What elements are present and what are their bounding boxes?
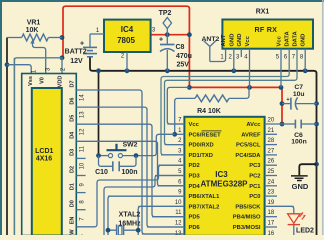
- svg-text:AVcc: AVcc: [246, 122, 261, 128]
- node C7 gnd: [314, 101, 319, 106]
- wire LCD EN to IC3 PD2: [76, 165, 184, 227]
- wire IC4 pin2: [121, 52, 127, 71]
- test point TP2: [159, 10, 172, 35]
- node GND branch: [314, 162, 319, 167]
- wire SW2 gnd side: [99, 155, 109, 157]
- node VR1 right on red: [60, 35, 65, 40]
- wire LCD stub 8: [76, 192, 85, 194]
- svg-text:PC1: PC1: [249, 184, 261, 190]
- wire IC3 pin 7 stub: [167, 123, 184, 125]
- op-amp IC4 7805 box: [104, 20, 151, 52]
- svg-text:LCD1: LCD1: [35, 148, 53, 155]
- node AVcc/C6 junction: [280, 122, 285, 127]
- wire to GND symbol: [299, 164, 316, 175]
- svg-text:GND: GND: [237, 34, 243, 47]
- svg-text:ANT: ANT: [221, 34, 227, 46]
- svg-text:17: 17: [268, 221, 275, 227]
- svg-text:PD6: PD6: [189, 225, 201, 231]
- svg-text:26: 26: [268, 159, 275, 165]
- wire RF pin4 Vcc: [249, 49, 251, 88]
- svg-text:C10: C10: [95, 169, 108, 176]
- svg-text:PD1/TXD: PD1/TXD: [189, 153, 213, 159]
- label LCD pin 10 D3: [69, 149, 85, 170]
- svg-text:24: 24: [268, 179, 275, 185]
- svg-text:PC4/SDA: PC4/SDA: [235, 153, 261, 159]
- label RF RX pin 2 GND: [229, 34, 236, 61]
- op-amp RX1 RF RX box: [222, 9, 313, 49]
- svg-text:PD3: PD3: [189, 174, 201, 180]
- label LCD pin 7 D0: [69, 200, 85, 221]
- label IC3 pin 19 PB5/SCK: [235, 200, 274, 211]
- capacitor C6 100n: [282, 120, 317, 146]
- wire IC3 pin10 to crystal: [138, 206, 184, 230]
- node SW2/C10 junction: [134, 153, 139, 158]
- label LCD pin 13 D6: [69, 98, 85, 119]
- capacitor C8 470u 25V: [159, 35, 192, 71]
- svg-text:PD2: PD2: [189, 163, 200, 169]
- node crystal left: [106, 228, 111, 233]
- svg-text:PC6/RESET: PC6/RESET: [189, 132, 222, 138]
- wire IC3 pin 17 stub: [265, 226, 277, 228]
- svg-text:23: 23: [268, 190, 275, 196]
- label IC3 pin 16 PB2/SS: [268, 231, 275, 237]
- svg-text:TP2: TP2: [159, 10, 172, 17]
- label RF RX pin 1 ANT: [220, 34, 227, 60]
- wire IC3 pin 24 stub: [265, 185, 277, 187]
- svg-text:GND: GND: [301, 34, 307, 47]
- diode LED2: [288, 213, 314, 236]
- node C8 gnd: [165, 68, 170, 73]
- node LCD VDD on red: [60, 55, 65, 60]
- svg-text:Vss: Vss: [28, 76, 34, 86]
- label IC3 pin 17 PB3/MOSI: [233, 221, 275, 232]
- svg-text:25: 25: [268, 169, 275, 175]
- svg-text:14: 14: [79, 94, 85, 101]
- svg-text:GND: GND: [229, 34, 235, 47]
- label IC3 pin 18 PB4/MISO: [233, 210, 275, 221]
- label LCD pin 9 D2: [69, 166, 85, 187]
- wire LCD stub 9: [76, 175, 85, 177]
- wire RF pin6 data to TXD: [161, 49, 289, 155]
- label LCD pin 8 D1: [69, 183, 85, 204]
- node IC4 pin2 gnd: [125, 68, 130, 73]
- wire RF pin2 gnd: [233, 49, 235, 71]
- frame border right: [322, 0, 324, 235]
- wire IC3 pin 13 stub: [142, 233, 184, 235]
- label IC3 pin 13 PD7: [175, 231, 182, 237]
- svg-text:RX1: RX1: [256, 9, 270, 16]
- label IC3 pin 28 PC5/SCL: [236, 138, 275, 149]
- ground GND symbol: [291, 176, 309, 191]
- svg-text:PC3: PC3: [249, 163, 261, 169]
- wire IC3 pin 20 stub: [265, 123, 282, 125]
- svg-text:VR1: VR1: [27, 20, 41, 27]
- antenna ANT2: [202, 36, 220, 62]
- svg-text:ANT2: ANT2: [202, 36, 220, 43]
- svg-text:PB4/MISO: PB4/MISO: [233, 215, 261, 221]
- wire IC3 pin 25 stub: [265, 175, 277, 177]
- wire far-left ground drop: [6, 38, 8, 236]
- node RF pin2 gnd: [231, 68, 236, 73]
- svg-text:D7: D7: [69, 80, 75, 87]
- wire IC3 pin19 to LED2: [265, 206, 294, 213]
- svg-text:16: 16: [268, 231, 275, 235]
- svg-text:XTAL2: XTAL2: [119, 212, 141, 219]
- svg-text:Vcc: Vcc: [189, 122, 200, 128]
- svg-text:C8: C8: [176, 44, 185, 51]
- svg-text:13: 13: [79, 111, 85, 118]
- wire RF pin3 stub: [240, 49, 242, 57]
- wire LCD VDD: [14, 58, 62, 235]
- wire IC3 pin 18 stub: [265, 216, 277, 218]
- wire LCD D6 to IC3 PD6: [76, 107, 184, 227]
- wire RF pin5 Vcc: [280, 49, 282, 88]
- svg-text:RF RX: RF RX: [255, 25, 278, 34]
- svg-text:PC2: PC2: [249, 174, 260, 180]
- svg-text:IC4: IC4: [121, 25, 134, 34]
- label IC3 pin 12 PD6: [175, 221, 201, 232]
- resistor VR1 10K pot: [7, 20, 62, 41]
- svg-text:+: +: [80, 40, 84, 47]
- node SW2 gnd: [96, 68, 101, 73]
- wire IC3 pin 23 stub: [265, 195, 277, 197]
- wire VR1 wiper: [30, 40, 45, 74]
- label IC3 pin 23 PC0: [249, 190, 275, 201]
- node 5V corner junction: [187, 32, 192, 37]
- label RF RX pin 8 GND: [300, 34, 307, 61]
- svg-text:SW2: SW2: [123, 142, 138, 149]
- wire IC3 pin 6 stub: [158, 185, 185, 187]
- op-amp IC3 ATMEG328P box: [184, 117, 264, 236]
- wire IC3 pin9 to crystal: [108, 196, 184, 230]
- label IC3 pin 7 Vcc: [178, 118, 199, 129]
- svg-text:EN: EN: [69, 217, 75, 225]
- svg-text:Vcc: Vcc: [277, 35, 283, 46]
- svg-text:VDD: VDD: [57, 76, 63, 88]
- svg-text:4X16: 4X16: [36, 156, 52, 163]
- svg-text:PD4: PD4: [189, 184, 201, 190]
- wire +5V red rail top: [63, 6, 189, 58]
- svg-text:PD5: PD5: [189, 215, 201, 221]
- switch SW2: [107, 142, 138, 158]
- svg-text:12V: 12V: [70, 58, 83, 65]
- node LCD Vss gnd: [5, 62, 10, 67]
- wire IC4 pin1: [90, 28, 104, 34]
- svg-text:ATMEG328P: ATMEG328P: [201, 180, 249, 189]
- node crystal right: [136, 228, 141, 233]
- svg-text:D6: D6: [69, 98, 75, 105]
- svg-text:PC0: PC0: [249, 194, 260, 200]
- label IC3 pin 1 PC6/RESET: [178, 128, 221, 139]
- node RF pin8 gnd: [303, 68, 308, 73]
- wire LCD stub 7: [76, 209, 85, 211]
- svg-text:BATT2: BATT2: [65, 49, 87, 56]
- node 5V rail T-junction: [187, 85, 192, 90]
- label IC3 pin 4 PD2: [178, 159, 200, 170]
- wire ground drop to SW2: [98, 71, 100, 156]
- svg-text:28: 28: [268, 138, 275, 144]
- label LCD pin 14 D7: [69, 80, 85, 101]
- svg-text:+: +: [159, 37, 163, 44]
- wire LCD Vss: [7, 65, 31, 74]
- wire SW2 to reset: [123, 134, 175, 155]
- label IC3 pin 20 AVcc: [246, 118, 274, 129]
- wire IC3 pin 5 stub: [155, 175, 184, 177]
- svg-text:D5: D5: [69, 115, 75, 122]
- label IC3 pin 6 PD4: [178, 179, 200, 190]
- wire LCD RS loop to IC3 PD3: [104, 176, 184, 236]
- svg-text:PB7/XTAL2: PB7/XTAL2: [189, 204, 220, 210]
- svg-text:D0: D0: [69, 200, 75, 207]
- frame border left: [0, 0, 2, 235]
- wire ground rail: [90, 57, 317, 235]
- wire LCD stub 10: [76, 157, 85, 159]
- svg-text:V0: V0: [39, 77, 45, 84]
- battery BATT2 12V: [65, 34, 97, 65]
- svg-text:IC3: IC3: [215, 170, 228, 179]
- svg-text:+: +: [286, 97, 289, 103]
- wire RF pin8 gnd: [304, 49, 306, 71]
- svg-text:25V: 25V: [177, 62, 190, 69]
- wire +5V red vertical to rail: [189, 35, 282, 124]
- label RF RX pin 4 Vcc: [244, 35, 251, 60]
- wire LCD D4 to IC3 PD4: [76, 141, 184, 186]
- node C6 gnd: [314, 122, 319, 127]
- svg-text:RW: RW: [69, 229, 75, 235]
- svg-text:Vcc: Vcc: [245, 35, 251, 46]
- wire IC3 pin 19 stub: [265, 205, 294, 207]
- svg-text:27: 27: [268, 148, 275, 154]
- wire IC3 pin 12 stub: [147, 226, 184, 228]
- label RF RX pin 7 DATA: [292, 30, 299, 60]
- label IC3 pin 10 PB7/XTAL2: [175, 200, 220, 211]
- wire IC3 pin 26 stub: [265, 164, 277, 166]
- wire IC3 pin 10 stub: [138, 205, 184, 207]
- svg-text:11: 11: [175, 210, 182, 216]
- label RF RX pin 3 GND: [236, 34, 243, 61]
- svg-text:10: 10: [175, 200, 182, 206]
- svg-text:18: 18: [268, 210, 275, 216]
- svg-text:19: 19: [268, 200, 275, 206]
- svg-text:100n: 100n: [291, 139, 307, 146]
- svg-text:DATA: DATA: [285, 30, 291, 46]
- svg-text:12: 12: [175, 221, 182, 227]
- svg-text:10u: 10u: [293, 91, 305, 98]
- svg-text:16MHz: 16MHz: [118, 221, 141, 228]
- frame border top: [0, 0, 324, 2]
- svg-text:12: 12: [79, 128, 85, 135]
- label IC3 pin 11 PD5: [175, 210, 200, 221]
- wire IC3 pin 27 stub: [265, 154, 277, 156]
- svg-text:D2: D2: [69, 166, 75, 173]
- svg-text:11: 11: [79, 145, 85, 152]
- label LCD pin 5 RW: [69, 229, 75, 239]
- label LCD pin3 V0: [39, 67, 51, 84]
- svg-text:100n: 100n: [122, 169, 138, 176]
- wire IC3 pin 4 stub: [159, 164, 185, 166]
- label IC3 pin 24 PC1: [249, 179, 275, 190]
- node RF-RX pin4 Vcc junction: [247, 85, 252, 90]
- svg-text:PB6/XTAL1: PB6/XTAL1: [189, 194, 221, 200]
- svg-text:LED2: LED2: [296, 228, 314, 235]
- label IC3 pin 5 PD3: [178, 169, 200, 180]
- wire IC3 pin 1 stub: [175, 133, 185, 135]
- label IC3 pin 9 PB6/XTAL1: [178, 190, 220, 201]
- label LCD pin2 VDD: [57, 67, 66, 87]
- wire IC3 Vcc riser: [167, 87, 189, 124]
- wire LCD D7 to IC3 PD7: [76, 90, 184, 234]
- svg-text:PB5/SCK: PB5/SCK: [235, 204, 261, 210]
- svg-text:7805: 7805: [117, 36, 135, 45]
- svg-text:PC5/SCL: PC5/SCL: [236, 143, 261, 149]
- wire IC3 pin 28 stub: [265, 144, 277, 146]
- svg-text:PB3/MOSI: PB3/MOSI: [233, 225, 261, 231]
- label LCD pin 6 EN: [69, 217, 85, 238]
- svg-text:10: 10: [79, 162, 85, 169]
- svg-text:DATA: DATA: [293, 30, 299, 46]
- svg-text:D3: D3: [69, 149, 75, 156]
- wire IC3 pin 21 stub: [265, 133, 277, 135]
- wire 5V drop-down left: [13, 58, 15, 235]
- label IC3 pin 21 AVREF: [241, 128, 275, 139]
- label IC3 pin 26 PC3: [249, 159, 275, 170]
- svg-text:20: 20: [268, 118, 275, 124]
- label RF RX pin 6 DATA: [284, 30, 291, 60]
- label LCD pin1 Vss: [28, 69, 38, 86]
- label IC3 pin 25 PC2: [249, 169, 275, 180]
- label RF RX pin 5 Vcc: [276, 35, 283, 60]
- label LCD pin 11 D4: [69, 131, 85, 152]
- node C7 + junction: [280, 101, 285, 106]
- svg-text:R4 10K: R4 10K: [197, 108, 221, 115]
- capacitor C7 10u: [282, 84, 317, 110]
- svg-text:D4: D4: [69, 131, 75, 139]
- svg-text:21: 21: [268, 128, 275, 134]
- wire IC3 pin 11 stub: [152, 216, 184, 218]
- svg-text:D1: D1: [69, 183, 75, 190]
- label LCD pin 12 D5: [69, 115, 85, 136]
- svg-text:GND: GND: [292, 182, 309, 191]
- svg-text:AVREF: AVREF: [241, 132, 261, 138]
- label IC3 pin 2 PD0/RXD: [178, 138, 213, 149]
- svg-text:10K: 10K: [26, 27, 39, 34]
- wire IC3 pin 9 stub: [108, 195, 184, 197]
- wire IC3 pin 2 stub: [165, 144, 185, 146]
- wire LCD D5 to IC3 PD5: [76, 124, 184, 217]
- node 5V/TP2 junction: [165, 32, 170, 37]
- node SW2 left: [96, 153, 101, 158]
- node RF-RX pin5 Vcc junction: [279, 85, 284, 90]
- op-amp LCD1 4X16 box: [22, 74, 77, 236]
- label IC3 pin 3 PD1/TXD: [178, 148, 213, 159]
- label IC3 pin 27 PC4/SDA: [235, 148, 274, 159]
- resistor R4 10K: [175, 87, 249, 134]
- capacitor C10 100n: [95, 156, 137, 176]
- svg-text:C7: C7: [294, 84, 303, 91]
- label IC4 pin3: [152, 28, 156, 34]
- svg-text:PD0/RXD: PD0/RXD: [189, 143, 214, 149]
- crystal XTAL2 16MHz: [108, 212, 141, 236]
- wire RF pin7 data to RXD: [165, 49, 298, 145]
- wire IC3 pin 3 stub: [161, 154, 184, 156]
- svg-text:470u: 470u: [176, 53, 192, 60]
- node IC3 pin1 reset junction: [172, 132, 177, 137]
- wire RF pin1 to antenna: [210, 49, 226, 62]
